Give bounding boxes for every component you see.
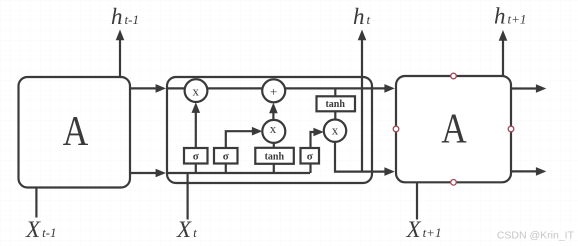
tanh box top (317, 96, 356, 111)
wire left-to-cell bottom arrow (130, 169, 166, 178)
svg-text:A: A (441, 106, 467, 153)
svg-text:x: x (193, 84, 200, 99)
wire x-circle3 output to right block (335, 142, 395, 176)
wire sigma1 bottom stub (195, 164, 197, 174)
wire h(t+1) up arrow (499, 30, 508, 76)
wire input line in cell (167, 172, 310, 174)
wire sigma1 to x-circle arrow (192, 102, 201, 148)
gate x-circle 2 (262, 120, 285, 143)
wire cell-state to tanh2 stub (334, 88, 336, 96)
gate x-circle 1 (185, 79, 208, 102)
svg-text:+: + (270, 84, 277, 99)
wire right block top output arrow (511, 84, 546, 93)
svg-text:x: x (332, 123, 339, 138)
anchor point left (393, 126, 399, 132)
wire tanh2 to x-circle3 stub (334, 111, 336, 119)
node A left block (19, 77, 131, 188)
wire X(t-1) input (35, 188, 37, 218)
wire right block bottom output arrow (511, 167, 546, 176)
wire X(t+1) input (416, 182, 418, 219)
wire sigma3 to x-circle3 bent arrow (311, 128, 324, 148)
wire left-to-cell top arrow (130, 84, 166, 93)
wire h(t) up arrow (358, 30, 367, 172)
svg-text:x: x (270, 121, 277, 136)
svg-text:σ: σ (307, 151, 313, 163)
gate plus circle (262, 79, 285, 102)
svg-text:CSDN @Krin_IT: CSDN @Krin_IT (497, 230, 575, 242)
wire tanh to x-circle2 stub (273, 143, 275, 148)
svg-text:tanh: tanh (325, 99, 345, 110)
node A right block (396, 76, 511, 182)
wire sigma2 to x-circle2 bent arrow (226, 127, 262, 148)
anchor point right (508, 126, 514, 132)
LSTM cell box (167, 77, 372, 183)
anchor point bottom (451, 180, 457, 186)
wire x-circle2 to plus arrow (269, 103, 278, 120)
wire X(t) input (187, 173, 189, 220)
sigma box 3 (301, 148, 320, 164)
wire h(t-1) up arrow (116, 30, 125, 78)
wire tanh bottom stub (273, 164, 275, 173)
svg-text:σ: σ (223, 151, 229, 163)
sigma box 2 (214, 148, 238, 164)
svg-text:tanh: tanh (265, 151, 285, 162)
sigma box 1 (184, 148, 208, 164)
tanh box bottom (255, 148, 293, 164)
wire sigma3 bottom stub (309, 164, 311, 173)
wire sigma2 bottom stub (225, 164, 227, 173)
svg-text:A: A (63, 108, 89, 155)
anchor point top (451, 73, 457, 79)
gate x-circle 3 (324, 120, 346, 142)
wire cell-state line to right block (167, 84, 395, 93)
svg-text:σ: σ (193, 151, 199, 163)
